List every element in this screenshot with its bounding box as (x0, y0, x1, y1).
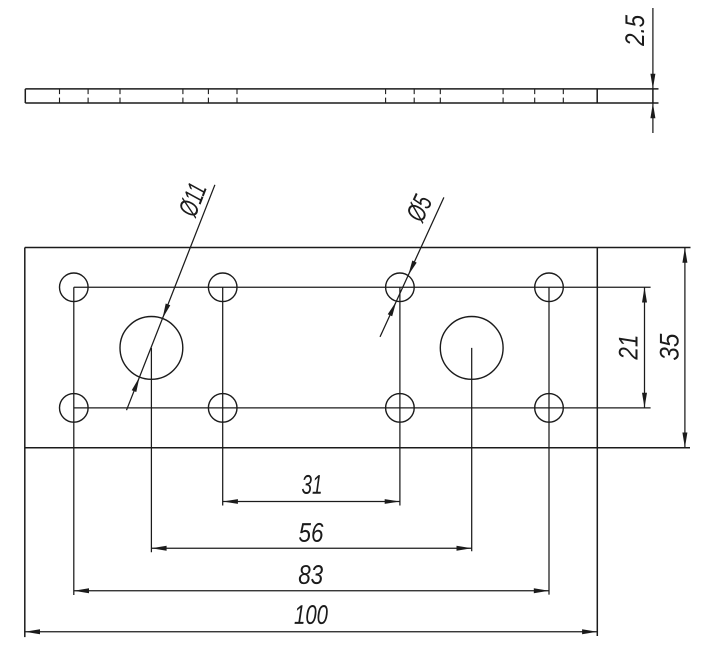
svg-text:83: 83 (298, 560, 323, 590)
svg-text:2.5: 2.5 (620, 14, 650, 47)
svg-text:56: 56 (298, 518, 324, 548)
svg-text:100: 100 (294, 600, 328, 630)
svg-text:35: 35 (654, 333, 684, 361)
svg-text:31: 31 (301, 470, 322, 500)
svg-text:21: 21 (614, 335, 644, 361)
svg-text:Ø11: Ø11 (173, 179, 213, 221)
